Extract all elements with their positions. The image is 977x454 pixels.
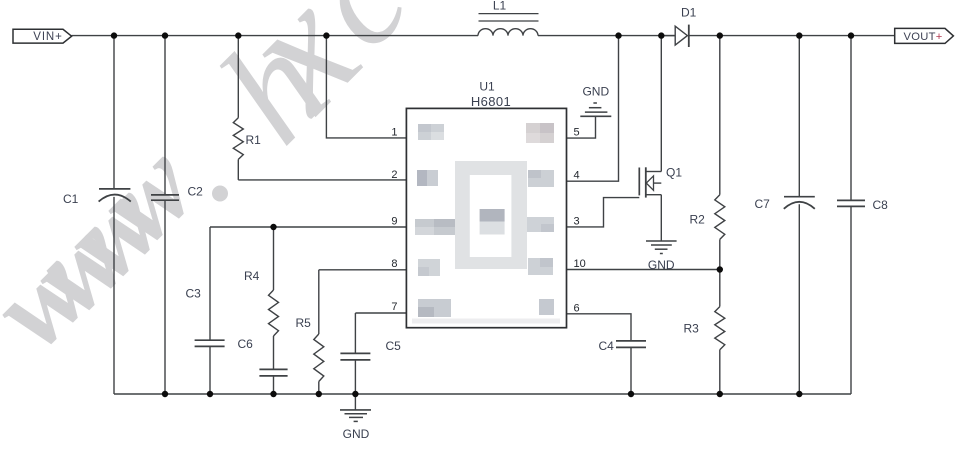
svg-text:U1: U1: [479, 80, 495, 94]
svg-text:C8: C8: [873, 198, 889, 212]
svg-text:3: 3: [574, 215, 580, 227]
svg-text:8: 8: [391, 258, 397, 270]
svg-text:9: 9: [391, 216, 397, 228]
svg-text:7: 7: [391, 301, 397, 313]
svg-text:C7: C7: [755, 197, 771, 211]
svg-text:R5: R5: [296, 316, 312, 330]
svg-text:C5: C5: [386, 339, 402, 353]
svg-text:GND: GND: [343, 427, 370, 441]
svg-text:C4: C4: [599, 339, 615, 353]
svg-text:C2: C2: [188, 185, 204, 199]
svg-text:5: 5: [574, 127, 580, 139]
svg-text:R4: R4: [244, 269, 260, 283]
svg-text:C6: C6: [238, 337, 254, 351]
svg-text:D1: D1: [681, 6, 697, 20]
svg-text:R2: R2: [690, 212, 706, 226]
svg-text:10: 10: [574, 258, 586, 270]
svg-text:Q1: Q1: [666, 166, 682, 180]
svg-text:GND: GND: [648, 258, 675, 272]
svg-text:R1: R1: [246, 133, 262, 147]
svg-text:VIN+: VIN+: [33, 31, 63, 43]
svg-text:6: 6: [574, 302, 580, 314]
svg-text:L1: L1: [493, 0, 507, 13]
svg-text:1: 1: [391, 127, 397, 139]
svg-text:4: 4: [574, 170, 580, 182]
svg-text:H6801: H6801: [471, 94, 511, 109]
svg-text:C1: C1: [63, 192, 79, 206]
svg-text:2: 2: [391, 169, 397, 181]
svg-text:C3: C3: [186, 287, 202, 301]
svg-text:R3: R3: [684, 322, 700, 336]
svg-text:GND: GND: [582, 85, 609, 99]
svg-text:VOUT+: VOUT+: [903, 31, 942, 43]
